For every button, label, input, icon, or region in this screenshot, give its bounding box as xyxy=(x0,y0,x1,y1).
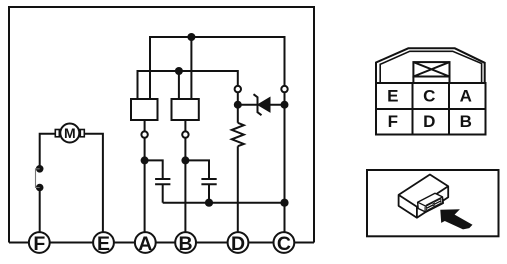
connector latch box with X xyxy=(413,62,449,83)
terminal A xyxy=(135,232,156,255)
top bus xyxy=(150,37,285,99)
capacitor C2 branch wires xyxy=(185,160,209,179)
zener diode D1 wires xyxy=(238,104,285,106)
svg-text:A: A xyxy=(138,233,152,255)
connector pinout: inner roof outline xyxy=(380,51,481,83)
junction dot coil L2 output xyxy=(181,156,189,164)
zener diode D1 triangle xyxy=(258,97,270,112)
svg-text:F: F xyxy=(388,112,398,131)
junction dot cap bus at C wire xyxy=(280,199,288,207)
junction dot zener left xyxy=(234,101,242,109)
wire switch to F xyxy=(39,189,41,232)
schematic enclosure box xyxy=(9,7,314,243)
wire coil L1 output / terminal A xyxy=(144,120,146,232)
pinout grid xyxy=(376,83,486,135)
wire coil L2 output / terminal B xyxy=(184,120,186,232)
relay location panel box xyxy=(367,170,499,236)
junction dot second bus xyxy=(175,67,183,75)
motor M1 brushes xyxy=(55,130,59,137)
terminal C xyxy=(274,232,295,255)
junction dot top bus xyxy=(187,33,195,41)
terminal D xyxy=(228,232,249,255)
terminal B xyxy=(175,232,196,255)
terminal E xyxy=(93,232,114,255)
terminal F xyxy=(29,232,50,255)
svg-text:E: E xyxy=(387,86,398,105)
motor M1 circle xyxy=(60,124,79,143)
open contact circle C branch xyxy=(281,86,287,92)
open contact circle D branch xyxy=(235,86,241,92)
capacitor C1 branch wires xyxy=(145,160,163,179)
relay coil L1 xyxy=(131,99,158,120)
relay body (isometric box) xyxy=(399,175,449,218)
svg-text:B: B xyxy=(460,112,472,131)
terminal bus line (bottom) xyxy=(9,242,314,244)
capacitor C2 plates xyxy=(201,179,216,184)
connector pinout: outer roof outline xyxy=(376,48,485,83)
junction dot coil L1 output xyxy=(141,156,149,164)
zener diode D1 cathode bar with hooks xyxy=(254,94,262,115)
svg-text:A: A xyxy=(460,86,472,105)
svg-text:D: D xyxy=(231,233,245,255)
svg-text:B: B xyxy=(179,233,193,255)
relay coil L2 xyxy=(172,99,199,120)
svg-text:M: M xyxy=(64,125,76,141)
pointing arrow xyxy=(440,209,472,229)
svg-text:C: C xyxy=(423,86,435,105)
wire coil L2 right entry xyxy=(190,37,192,99)
svg-text:E: E xyxy=(97,233,110,255)
svg-text:F: F xyxy=(33,233,45,255)
switch S1 contact dots xyxy=(36,165,44,173)
wire D branch lower xyxy=(237,146,239,232)
wire motor left to switch xyxy=(40,134,56,166)
wire D branch upper xyxy=(237,92,239,123)
junction dot cap bus at C2 xyxy=(205,199,213,207)
open contact circle under coil L2 xyxy=(182,131,188,137)
junction dot zener right xyxy=(281,101,289,109)
relay socket (3d) xyxy=(418,193,444,212)
second bus xyxy=(138,71,238,99)
wire motor right to E xyxy=(84,134,103,232)
resistor R1 zigzag xyxy=(232,123,244,146)
capacitor C1 plates xyxy=(155,179,170,184)
wire coil L2 left entry xyxy=(178,71,180,99)
switch S1 bracket xyxy=(36,169,40,188)
wire C branch xyxy=(284,92,286,232)
open contact circle under coil L1 xyxy=(141,131,147,137)
svg-text:D: D xyxy=(423,112,435,131)
svg-text:C: C xyxy=(277,233,291,255)
capacitor ground bus xyxy=(163,202,285,204)
